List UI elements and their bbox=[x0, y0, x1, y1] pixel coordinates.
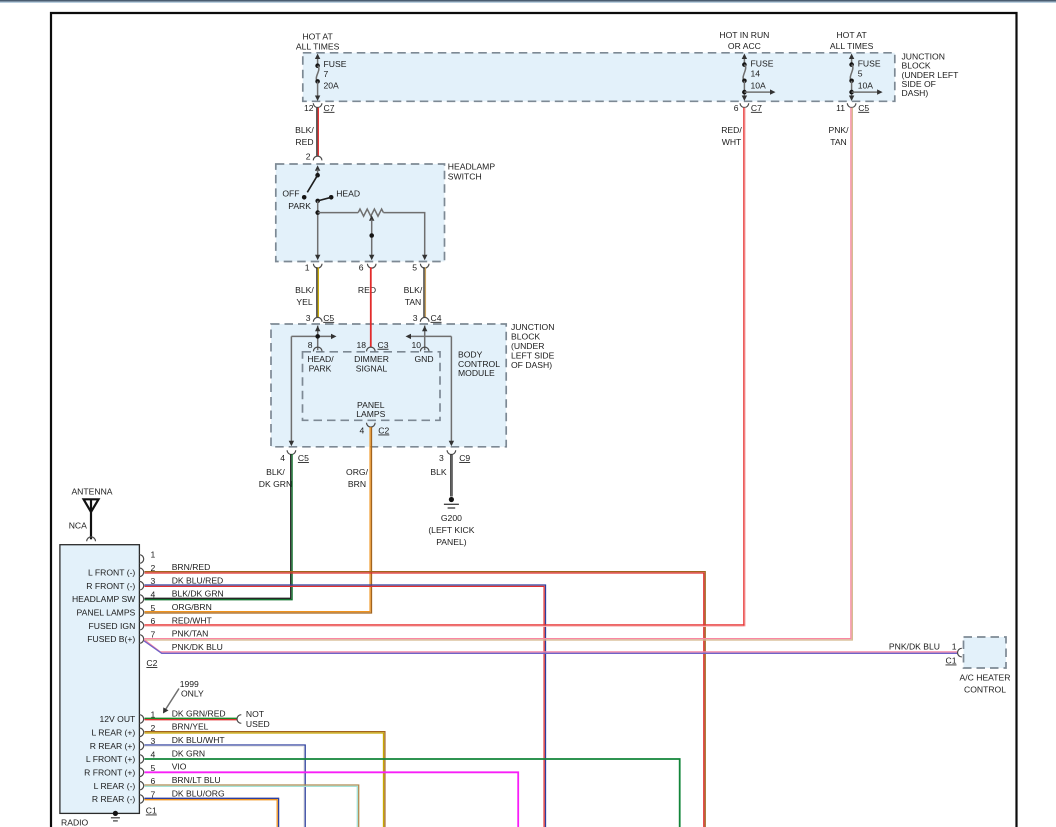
connector C7 pin 12 cup bbox=[313, 103, 322, 107]
svg-text:ONLY: ONLY bbox=[181, 689, 204, 699]
svg-text:BLK/: BLK/ bbox=[295, 125, 314, 135]
wire BLK/YEL switch pin1 to JB C5 pin3 bbox=[316, 267, 318, 317]
svg-text:LEFT SIDE: LEFT SIDE bbox=[511, 351, 555, 361]
svg-text:HOT IN RUN: HOT IN RUN bbox=[719, 30, 769, 40]
svg-text:FUSED IGN: FUSED IGN bbox=[89, 621, 136, 631]
svg-text:C3: C3 bbox=[378, 340, 389, 350]
JB2 C5 pin 4 cup bbox=[287, 450, 296, 454]
svg-text:DK BLU/RED: DK BLU/RED bbox=[172, 575, 224, 585]
fuse F14 branch dot bbox=[742, 90, 747, 95]
svg-text:C4: C4 bbox=[431, 313, 442, 323]
svg-text:C1: C1 bbox=[946, 656, 957, 666]
svg-text:NCA: NCA bbox=[69, 521, 87, 531]
svg-text:PARK: PARK bbox=[288, 201, 311, 211]
fuse F5 branch dot bbox=[849, 90, 854, 95]
switch pivot dot bbox=[315, 173, 320, 178]
note leader arrow bbox=[165, 689, 179, 711]
svg-text:7: 7 bbox=[324, 69, 329, 79]
wire BRN/LT BLU radio C1 pin6 bbox=[145, 785, 359, 827]
not used cup bbox=[237, 715, 241, 724]
fuse F7 upper terminal dot bbox=[315, 63, 320, 68]
wire resistor to pin 5 bbox=[383, 213, 424, 256]
switch pin 1 cup bbox=[313, 264, 322, 268]
svg-text:NOT: NOT bbox=[246, 709, 265, 719]
svg-text:PNK/: PNK/ bbox=[828, 125, 849, 135]
svg-text:10: 10 bbox=[411, 340, 421, 350]
wiper wire down to pin 6 bbox=[371, 220, 373, 256]
svg-text:FUSED B(+): FUSED B(+) bbox=[87, 634, 135, 644]
svg-text:18: 18 bbox=[356, 340, 366, 350]
fuse F7 lower stem bbox=[317, 81, 319, 96]
svg-text:DASH): DASH) bbox=[902, 88, 929, 98]
junction block (top) box bbox=[303, 53, 895, 102]
svg-text:C7: C7 bbox=[324, 103, 335, 113]
body control module inner box bbox=[303, 352, 441, 421]
wire BLK/TAN switch pin5 to JB C4 pin3 bbox=[423, 267, 425, 317]
wire DK GRN/RED radio C1 pin1 (not used) bbox=[145, 717, 238, 719]
svg-text:6: 6 bbox=[734, 103, 739, 113]
svg-text:L FRONT (-): L FRONT (-) bbox=[88, 568, 135, 578]
dimmer resistor zigzag bbox=[358, 209, 383, 216]
svg-text:BRN/RED: BRN/RED bbox=[172, 562, 211, 572]
branch junction dot bbox=[315, 334, 320, 339]
fuse F14 element squiggle bbox=[743, 65, 746, 81]
svg-text:3: 3 bbox=[439, 453, 444, 463]
svg-text:(UNDER: (UNDER bbox=[511, 341, 544, 351]
svg-text:8: 8 bbox=[308, 340, 313, 350]
svg-text:14: 14 bbox=[751, 69, 761, 79]
svg-text:5: 5 bbox=[858, 69, 863, 79]
wire C5 pin3 into BCM pin 8 bbox=[317, 326, 319, 351]
branch wire down to C9 pin 3 bbox=[450, 336, 452, 443]
radio box bbox=[60, 545, 139, 814]
radio case ground bbox=[113, 811, 118, 816]
svg-text:BLK/: BLK/ bbox=[266, 467, 285, 477]
switch feed up arrow bbox=[315, 165, 320, 171]
svg-text:HEADLAMP: HEADLAMP bbox=[448, 162, 496, 172]
svg-text:HOT AT: HOT AT bbox=[302, 31, 333, 41]
BCM pin 18 C3 cup bbox=[367, 347, 376, 351]
svg-text:HEADLAMP SW: HEADLAMP SW bbox=[72, 594, 136, 604]
svg-text:RED/: RED/ bbox=[721, 125, 742, 135]
switch pin 6 cup bbox=[367, 264, 376, 268]
svg-text:4: 4 bbox=[151, 590, 156, 600]
fuse F7 element squiggle bbox=[316, 66, 319, 82]
svg-text:C1: C1 bbox=[146, 806, 157, 816]
wire PNK/TAN radio pin7 to fuse5 bbox=[145, 108, 851, 639]
svg-text:HEAD: HEAD bbox=[336, 188, 360, 198]
fuse F5 top arrow bbox=[849, 54, 854, 60]
svg-text:PNK/DK BLU: PNK/DK BLU bbox=[172, 642, 223, 652]
top window bar bbox=[0, 0, 1056, 2]
contact HEAD dot bbox=[329, 195, 334, 200]
wiper wire dot bbox=[369, 233, 374, 238]
svg-text:BLK/: BLK/ bbox=[404, 285, 423, 295]
fuse F7 wire stem bbox=[317, 58, 319, 66]
svg-text:OR ACC: OR ACC bbox=[728, 41, 761, 51]
fuse F5 branch arrow right bbox=[852, 91, 878, 93]
svg-text:DK GRN/RED: DK GRN/RED bbox=[172, 708, 226, 718]
branch down arrow at C9 pin3 bbox=[449, 441, 454, 447]
svg-text:5: 5 bbox=[151, 763, 156, 773]
fuse F7 top arrow bbox=[315, 54, 320, 60]
svg-text:HOT AT: HOT AT bbox=[836, 30, 867, 40]
wire BLK/DK GRN BCM to radio pin4 bbox=[145, 454, 291, 598]
connector C7 pin 6 cup bbox=[740, 103, 749, 107]
antenna symbol bbox=[84, 499, 99, 512]
connector C4 pin 3 cup bbox=[420, 317, 429, 321]
svg-text:FUSE: FUSE bbox=[858, 59, 881, 69]
svg-text:MODULE: MODULE bbox=[458, 368, 495, 378]
fuse F14 upper terminal dot bbox=[742, 62, 747, 67]
pin 6 down arrow bbox=[369, 255, 374, 260]
svg-text:R REAR (-): R REAR (-) bbox=[92, 794, 136, 804]
svg-text:10A: 10A bbox=[751, 80, 767, 90]
svg-text:A/C HEATER: A/C HEATER bbox=[960, 673, 1011, 683]
radio C1 pin cups bbox=[139, 715, 143, 724]
svg-text:1: 1 bbox=[305, 262, 310, 272]
svg-text:CONTROL: CONTROL bbox=[964, 685, 1006, 695]
svg-text:BLK/DK GRN: BLK/DK GRN bbox=[172, 589, 224, 599]
svg-text:L FRONT (+): L FRONT (+) bbox=[86, 754, 136, 764]
svg-text:C2: C2 bbox=[146, 658, 157, 668]
wire ORG/BRN BCM to radio pin5 bbox=[145, 427, 371, 612]
fuse F7 down arrow bbox=[315, 96, 320, 102]
svg-text:5: 5 bbox=[412, 262, 417, 272]
svg-text:BLK/: BLK/ bbox=[295, 285, 314, 295]
BCM pin 10 cup bbox=[420, 347, 429, 351]
BCM C2 pin 4 cup bbox=[367, 423, 376, 427]
headlamp switch box bbox=[276, 164, 445, 262]
svg-text:JUNCTION: JUNCTION bbox=[511, 322, 554, 332]
fuse F5 element squiggle bbox=[850, 65, 853, 81]
wire to dimmer resistor bbox=[318, 212, 359, 214]
svg-text:C5: C5 bbox=[858, 103, 869, 113]
contact OFF dot bbox=[302, 195, 307, 200]
svg-text:TAN: TAN bbox=[830, 137, 847, 147]
svg-text:FUSE: FUSE bbox=[324, 59, 347, 69]
svg-text:GND: GND bbox=[414, 354, 433, 364]
fuse F5 lower stem bbox=[851, 81, 853, 97]
connector C5 pin 11 cup bbox=[847, 103, 856, 107]
wire BRN/YEL radio C1 pin2 bbox=[145, 732, 385, 827]
svg-text:BRN: BRN bbox=[348, 479, 366, 489]
svg-text:6: 6 bbox=[359, 262, 364, 272]
fuse F14 lower terminal dot bbox=[742, 79, 747, 84]
svg-text:C5: C5 bbox=[323, 313, 334, 323]
svg-text:C7: C7 bbox=[751, 103, 762, 113]
wire RED switch pin6 to BCM C3 pin18 bbox=[370, 267, 372, 347]
connector pin 2 cup (headlamp switch) bbox=[313, 156, 322, 160]
svg-text:4: 4 bbox=[280, 453, 285, 463]
svg-text:BRN/YEL: BRN/YEL bbox=[172, 722, 209, 732]
switch pin 5 cup bbox=[420, 264, 429, 268]
fuse F5 wire stem bbox=[851, 58, 853, 66]
wire PNK/DK BLU radio pin7 to A/C heater bbox=[144, 640, 958, 652]
svg-text:BLOCK: BLOCK bbox=[511, 332, 540, 342]
svg-text:ALL TIMES: ALL TIMES bbox=[296, 41, 340, 51]
svg-text:BRN/LT BLU: BRN/LT BLU bbox=[172, 775, 221, 785]
svg-text:PARK: PARK bbox=[309, 364, 332, 374]
branch down arrow at C5 pin4 bbox=[289, 441, 294, 447]
svg-text:OFF: OFF bbox=[282, 188, 299, 198]
wire RED/WHT radio pin6 to fuse14 bbox=[743, 108, 745, 627]
svg-text:VIO: VIO bbox=[172, 762, 187, 772]
svg-text:3: 3 bbox=[413, 313, 418, 323]
svg-text:12V OUT: 12V OUT bbox=[99, 714, 136, 724]
branch bus left with right arrow bbox=[291, 335, 332, 337]
svg-text:TAN: TAN bbox=[405, 297, 422, 307]
svg-text:USED: USED bbox=[246, 719, 270, 729]
svg-text:10A: 10A bbox=[858, 80, 874, 90]
connector C5 pin 3 cup bbox=[313, 317, 322, 321]
svg-text:L REAR (+): L REAR (+) bbox=[91, 728, 135, 738]
ground G200 bbox=[449, 497, 454, 502]
fuse F5 down arrow bbox=[849, 96, 854, 102]
svg-text:DK GRN: DK GRN bbox=[259, 479, 292, 489]
antenna connector cup at radio bbox=[87, 537, 96, 541]
wire DK BLU/WHT radio C1 pin3 bbox=[145, 745, 306, 827]
fuse F5 lower terminal dot bbox=[849, 79, 854, 84]
svg-text:G200: G200 bbox=[441, 513, 462, 523]
svg-text:BLK: BLK bbox=[430, 467, 447, 477]
svg-text:20A: 20A bbox=[324, 80, 340, 90]
svg-text:1999: 1999 bbox=[180, 679, 199, 689]
wire DK BLU/ORG radio C1 pin7 bbox=[145, 798, 279, 827]
svg-text:DK BLU/WHT: DK BLU/WHT bbox=[172, 735, 226, 745]
fuse F14 top arrow bbox=[742, 54, 747, 60]
A/C heater control box bbox=[964, 637, 1007, 668]
junction block 2 outer box bbox=[271, 324, 506, 447]
svg-text:SIGNAL: SIGNAL bbox=[356, 364, 388, 374]
svg-text:C5: C5 bbox=[298, 453, 309, 463]
svg-text:RED/WHT: RED/WHT bbox=[172, 615, 213, 625]
svg-text:12: 12 bbox=[304, 103, 314, 113]
fuse F14 branch arrow right bbox=[744, 91, 770, 93]
svg-text:DK BLU/ORG: DK BLU/ORG bbox=[172, 788, 225, 798]
svg-text:DIMMER: DIMMER bbox=[354, 354, 389, 364]
link PARK to HEAD bbox=[318, 197, 332, 201]
svg-text:(LEFT KICK: (LEFT KICK bbox=[428, 525, 474, 535]
branch bus right with left arrow bbox=[410, 335, 452, 337]
svg-text:5: 5 bbox=[151, 603, 156, 613]
svg-text:2: 2 bbox=[306, 152, 311, 162]
svg-text:R REAR (+): R REAR (+) bbox=[90, 741, 136, 751]
svg-text:C2: C2 bbox=[378, 426, 389, 436]
svg-text:YEL: YEL bbox=[296, 297, 312, 307]
svg-text:PNK/DK BLU: PNK/DK BLU bbox=[889, 641, 940, 651]
svg-text:DK GRN: DK GRN bbox=[172, 748, 205, 758]
svg-text:SWITCH: SWITCH bbox=[448, 172, 482, 182]
svg-text:WHT: WHT bbox=[722, 137, 742, 147]
pin 1 down arrow bbox=[315, 255, 320, 260]
fuse F14 down arrow bbox=[742, 96, 747, 102]
dimmer wiper arrow up bbox=[369, 215, 374, 221]
svg-text:FUSE: FUSE bbox=[751, 59, 774, 69]
svg-text:RADIO: RADIO bbox=[61, 818, 89, 827]
svg-text:4: 4 bbox=[360, 426, 365, 436]
junction dot at resistor feed bbox=[315, 210, 320, 215]
fuse F5 upper terminal dot bbox=[849, 62, 854, 67]
svg-text:R FRONT (-): R FRONT (-) bbox=[86, 581, 135, 591]
wire BRN/RED radio pin2 bbox=[145, 572, 706, 827]
svg-text:C9: C9 bbox=[459, 453, 470, 463]
svg-text:R FRONT (+): R FRONT (+) bbox=[84, 768, 135, 778]
svg-text:11: 11 bbox=[836, 103, 845, 113]
svg-text:L REAR (-): L REAR (-) bbox=[94, 781, 136, 791]
JB2 C9 pin 3 cup bbox=[447, 450, 456, 454]
svg-text:PANEL LAMPS: PANEL LAMPS bbox=[77, 608, 136, 618]
wire DK GRN radio C1 pin4 bbox=[145, 759, 680, 827]
A/C heater pin 1 cup bbox=[957, 648, 961, 657]
wire C4 pin3 into BCM pin 10 bbox=[424, 326, 426, 351]
svg-text:ANTENNA: ANTENNA bbox=[71, 486, 112, 496]
wire DK BLU/RED radio pin3 bbox=[145, 585, 546, 827]
svg-text:LAMPS: LAMPS bbox=[356, 409, 385, 419]
wire BLK/RED fuse7 to headlamp switch bbox=[316, 108, 318, 156]
svg-text:RED: RED bbox=[295, 137, 313, 147]
branch wire down to C5 pin 4 bbox=[290, 336, 292, 443]
svg-text:ORG/BRN: ORG/BRN bbox=[172, 602, 212, 612]
svg-text:PNK/TAN: PNK/TAN bbox=[172, 629, 209, 639]
svg-text:RED: RED bbox=[358, 285, 376, 295]
svg-text:PANEL): PANEL) bbox=[436, 537, 467, 547]
svg-text:ALL TIMES: ALL TIMES bbox=[830, 41, 874, 51]
svg-text:OF DASH): OF DASH) bbox=[511, 360, 552, 370]
wire BLK C9 to G200 bbox=[450, 454, 452, 497]
fuse F14 lower stem bbox=[743, 81, 745, 97]
svg-text:ORG/: ORG/ bbox=[346, 467, 369, 477]
svg-text:1: 1 bbox=[952, 641, 957, 651]
wire PARK down to pin 1 bbox=[317, 201, 319, 256]
contact PARK dot bbox=[315, 199, 320, 204]
svg-text:3: 3 bbox=[306, 313, 311, 323]
svg-text:HEAD/: HEAD/ bbox=[307, 354, 334, 364]
pin 5 down arrow bbox=[422, 255, 427, 260]
BCM pin 8 cup bbox=[313, 347, 322, 351]
wire VIO radio C1 pin5 bbox=[145, 772, 519, 827]
svg-text:4: 4 bbox=[151, 750, 156, 760]
switch lever toward OFF bbox=[307, 175, 317, 192]
radio C2 pin cups bbox=[139, 555, 143, 564]
svg-text:1: 1 bbox=[151, 550, 156, 560]
fuse F14 wire stem bbox=[743, 58, 745, 66]
fuse F7 lower terminal dot bbox=[315, 79, 320, 84]
